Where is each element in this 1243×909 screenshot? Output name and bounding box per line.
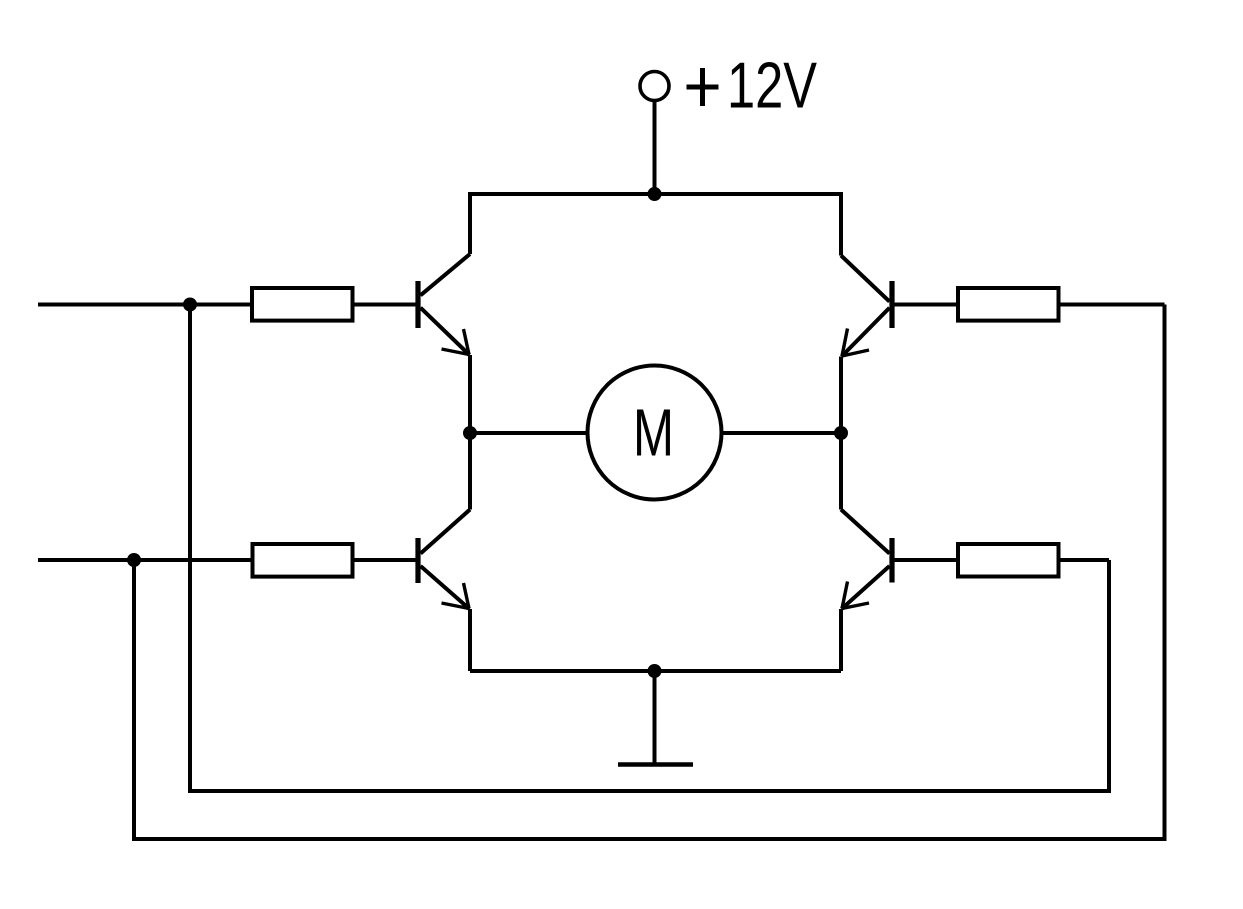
- wire: input B: [38, 558, 134, 562]
- label +12V: [687, 49, 818, 122]
- transistor Q2: [841, 256, 892, 357]
- junction: bottom rail ground node: [648, 664, 662, 678]
- svg-text:M: M: [633, 396, 674, 471]
- wire: terminal to +12V rail: [653, 101, 657, 195]
- wire: ground stem: [653, 671, 657, 764]
- wire: motor right node to Q4 collector: [839, 433, 843, 510]
- wire: Q2 emitter to motor right node: [839, 357, 843, 434]
- power terminal +12V: [640, 72, 669, 101]
- transistor Q3: [418, 510, 470, 610]
- wire: input A node to R1: [190, 303, 251, 307]
- wire: R3 to Q3 base: [354, 558, 416, 562]
- resistor R1: [252, 288, 353, 321]
- wire: Q3 emitter to bottom rail: [468, 609, 472, 671]
- wire: Q4 emitter to bottom rail: [839, 609, 843, 671]
- ground: [618, 762, 693, 767]
- wire: Q4 base to R4: [895, 558, 958, 562]
- wire: feedback bus A (inner loop): [190, 305, 1109, 792]
- resistor R3: [253, 544, 353, 577]
- wire: R4 to inner feedback bus: [1060, 558, 1109, 562]
- junction: motor left node: [463, 426, 477, 440]
- wire: motor to motor right node: [722, 431, 842, 435]
- motor M1: [588, 366, 722, 500]
- wire: input A: [38, 303, 190, 307]
- wire: feedback bus B (outer loop): [134, 305, 1165, 840]
- wire: Q2 base to R2: [895, 303, 958, 307]
- wire: Q1 emitter to motor left node: [468, 355, 472, 433]
- wire: R2 to right feedback bus: [1060, 303, 1165, 307]
- junction: input B node: [127, 553, 141, 567]
- wire: motor left node to Q3 collector: [468, 433, 472, 510]
- transistor Q4: [841, 510, 892, 610]
- resistor R2: [958, 288, 1059, 321]
- wire: input B node to R3: [134, 558, 251, 562]
- wire: bottom rail: [470, 669, 841, 673]
- resistor R4: [958, 544, 1059, 577]
- wire: +12V top rail: [470, 194, 841, 256]
- transistor Q1: [418, 254, 470, 355]
- junction: input A node: [183, 298, 197, 312]
- junction: +12V rail: [648, 187, 662, 201]
- junction: motor right node: [834, 426, 848, 440]
- svg-text:12V: 12V: [727, 49, 818, 122]
- wire: R1 to Q1 base: [354, 303, 416, 307]
- wire: motor left node to motor: [470, 431, 588, 435]
